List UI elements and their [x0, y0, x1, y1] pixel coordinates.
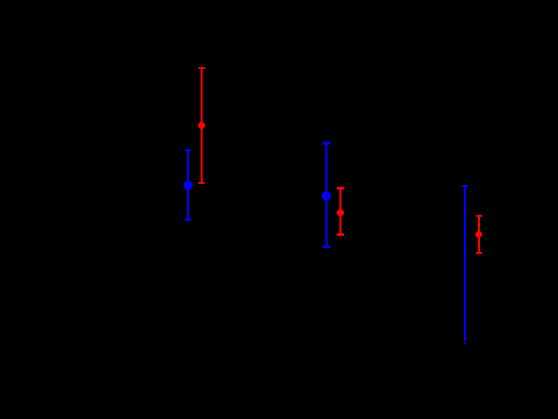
red error bar R3 vertical line	[478, 215, 480, 254]
red marker R2	[337, 209, 344, 216]
red error bar R2 vertical line	[339, 187, 341, 236]
blue error bar B2 top cap	[323, 142, 330, 145]
blue marker B2	[322, 191, 331, 200]
blue error bar B1 bottom cap	[185, 218, 191, 221]
red error bar R1 top cap	[198, 67, 205, 69]
blue error bar B3 vertical line	[464, 185, 466, 344]
blue error bar B1 vertical line	[187, 149, 189, 221]
blue error bar B1 top cap	[185, 149, 191, 151]
blue error bar B3 top cap	[462, 185, 468, 187]
red error bar R2 bottom cap	[337, 233, 344, 236]
red error bar R3 top cap	[476, 215, 482, 217]
red error bar R1 bottom cap	[198, 182, 205, 184]
red error bar R3 bottom cap	[476, 252, 482, 254]
blue error bar B2 vertical line	[326, 142, 328, 248]
red marker R3	[475, 231, 482, 238]
blue error bar B2 bottom cap	[323, 245, 330, 248]
red error bar R1 vertical line	[201, 67, 203, 184]
red error bar R2 top cap	[337, 187, 344, 190]
black axis line crossing blue bar B3	[463, 341, 467, 342]
red marker R1	[198, 122, 205, 129]
blue marker B1	[184, 181, 193, 190]
